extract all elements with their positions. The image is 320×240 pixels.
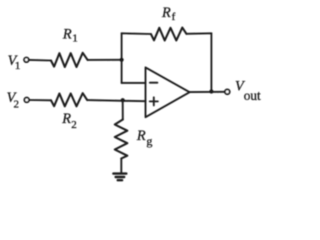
resistor R1: [51, 53, 88, 67]
label V1: [8, 53, 21, 72]
terminal V1: [24, 58, 29, 63]
node OUT (output junction): [209, 89, 213, 93]
wire: [121, 60, 123, 83]
terminal Vout: [225, 89, 230, 94]
wire: [122, 32, 151, 35]
label Vout: [235, 79, 261, 103]
wire: [120, 159, 122, 173]
wire: [88, 59, 122, 61]
label R1: [62, 26, 78, 44]
svg-text:2: 2: [14, 99, 20, 111]
svg-text:2: 2: [71, 119, 77, 131]
wire: [29, 99, 51, 101]
svg-text:R: R: [61, 111, 71, 127]
wire: [190, 91, 225, 93]
svg-text:1: 1: [15, 60, 21, 72]
svg-text:R: R: [62, 26, 72, 42]
label V2: [7, 90, 19, 111]
wire: [122, 100, 124, 119]
ground: [113, 174, 126, 181]
svg-text:R: R: [136, 128, 146, 144]
svg-text:R: R: [161, 5, 171, 21]
wire: [186, 32, 211, 35]
label R2: [61, 111, 76, 131]
wire: [122, 82, 146, 84]
node B (non-inverting input net junction): [121, 98, 125, 102]
wire: [210, 33, 212, 91]
terminal V2: [24, 98, 29, 103]
resistor Rg: [115, 120, 128, 159]
label Rg: [136, 128, 153, 148]
wire: [121, 33, 123, 60]
resistor R2: [51, 93, 87, 106]
op-amp U1: [146, 67, 190, 117]
svg-text:g: g: [146, 134, 152, 148]
svg-text:f: f: [172, 11, 176, 23]
resistor Rf: [151, 28, 186, 41]
svg-text:out: out: [244, 88, 261, 103]
svg-text:1: 1: [72, 33, 78, 45]
label Rf: [161, 5, 176, 23]
wire: [29, 59, 51, 62]
node A (inverting input net junction): [120, 58, 124, 62]
wire: [87, 100, 145, 101]
